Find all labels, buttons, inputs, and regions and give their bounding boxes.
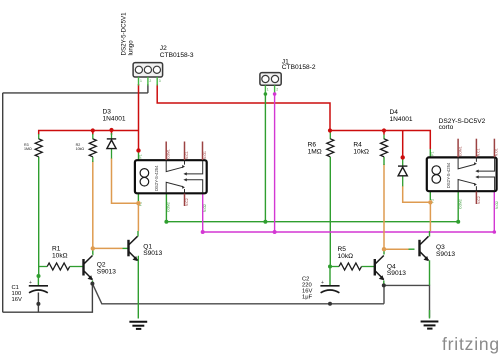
- svg-text:3: 3: [159, 79, 161, 83]
- wire: green R1 right lead to Q2 base: [70, 266, 83, 268]
- wire: orange R2 bottom drop: [92, 161, 94, 248]
- wire: red D4 anode drop: [402, 131, 404, 158]
- wire: green Q1 base stub: [123, 247, 129, 249]
- svg-text:S9013: S9013: [97, 268, 116, 275]
- svg-text:R6: R6: [308, 142, 317, 149]
- wire: ground run up to Q4 emitter: [383, 285, 385, 303]
- relay K1 switch 1: [166, 161, 203, 174]
- wire: black bottom run to Q2 emitter: [3, 284, 93, 313]
- ground (left): [129, 322, 147, 329]
- wire: green R6 top stub: [329, 133, 331, 140]
- relay K2 switch 2: [458, 177, 495, 191]
- wire: green R2 bottom stub: [92, 157, 94, 162]
- node: rail/R4: [382, 128, 386, 132]
- node: J1 pin2 start: [273, 92, 277, 96]
- relay K2 DS2Y-S body: [427, 157, 497, 191]
- svg-text:CTB0158-2: CTB0158-2: [282, 64, 316, 71]
- svg-text:1: 1: [140, 79, 142, 83]
- transistor Q2 S9013: [82, 256, 93, 281]
- transistor Q1 S9013: [127, 236, 138, 261]
- wire: green Q1 emitter to ground: [137, 257, 140, 319]
- svg-text:1N4001: 1N4001: [390, 116, 413, 123]
- resistor R5 10k (horizontal): [339, 263, 362, 270]
- svg-text:corto: corto: [439, 124, 454, 131]
- node: rail/R2: [91, 128, 95, 132]
- svg-text:N.C1: N.C1: [185, 151, 189, 159]
- svg-text:N.O1: N.O1: [203, 151, 207, 159]
- wire: green relay K1 coil+ pin stub: [138, 151, 140, 161]
- svg-text:fritzing: fritzing: [442, 334, 500, 354]
- node: Q2 emitter: [90, 282, 94, 286]
- capacitor C1 (polarized): [29, 280, 48, 293]
- relay K1 DS2Y-S body: [135, 160, 207, 193]
- node: Q4 emitter: [382, 283, 386, 287]
- wire: green R5 left lead: [330, 266, 339, 268]
- svg-text:S9013: S9013: [436, 251, 455, 258]
- relay K2 unconnected top pins: [458, 139, 494, 158]
- resistor R4 (10k): [381, 139, 388, 157]
- node: magenta bus right end: [493, 230, 497, 234]
- node: R4/Q3 base/Q4 collector: [382, 247, 386, 251]
- node: R5/C2: [328, 265, 332, 269]
- svg-text:DS2Y-S-4254: DS2Y-S-4254: [154, 165, 159, 191]
- wire: green Q4 emitter stub: [383, 281, 385, 286]
- svg-text:J2: J2: [160, 45, 167, 52]
- resistor R3 (1M): [35, 139, 42, 157]
- svg-text:CTB0158-3: CTB0158-3: [160, 52, 194, 59]
- svg-text:P1: P1: [431, 151, 435, 155]
- wire: green R1 left lead: [39, 266, 48, 268]
- capacitor C2 (polarized): [320, 280, 339, 293]
- resistor R6 (1M): [327, 139, 334, 157]
- svg-text:16V: 16V: [12, 297, 22, 303]
- wire: orange relay K2 coil- to Q3 collector: [429, 202, 431, 231]
- transistor Q3 S9013: [418, 236, 429, 261]
- svg-text:N.O1: N.O1: [495, 148, 499, 156]
- relay K2 switch 1: [458, 158, 495, 171]
- wire: green R3 top stub: [38, 134, 40, 139]
- svg-text:N.C2: N.C2: [185, 198, 189, 206]
- svg-text:COM1: COM1: [458, 146, 462, 156]
- svg-text:2: 2: [276, 88, 278, 92]
- wire: green relay K2 coil- pin stub: [429, 191, 431, 200]
- svg-text:1MΩ: 1MΩ: [308, 149, 322, 156]
- node: D3/K1 coil-/Q1 collector: [136, 201, 140, 205]
- svg-text:10kΩ: 10kΩ: [338, 253, 354, 260]
- wire: orange to Q3 base: [384, 248, 409, 250]
- wire: orange R4 bottom drop: [383, 164, 385, 249]
- svg-text:+: +: [321, 280, 324, 286]
- wire: green R6 bottom long drop to R5/C2: [329, 157, 331, 267]
- wire: green bus (relay commons / J1 pin1): [166, 191, 458, 221]
- resistor R2 (10k): [89, 139, 96, 157]
- wire: black down left edge: [2, 93, 4, 312]
- wire: red +V rail left: [39, 131, 139, 135]
- node: J1 pin1 start: [264, 92, 268, 96]
- wire: black horizontal to left edge: [3, 92, 148, 94]
- wire: green Q1 collector stub: [137, 231, 139, 237]
- relay K1 unconnected bottom pin: [184, 194, 186, 207]
- connector J1 CTB0158-2: [260, 73, 281, 93]
- wire: magenta bus (relay NO / J1 pin2): [203, 191, 495, 232]
- svg-text:COM1: COM1: [167, 149, 171, 159]
- svg-text:+: +: [29, 280, 32, 286]
- wire: green Q2 emitter stub: [91, 281, 93, 284]
- svg-text:COM2: COM2: [167, 202, 171, 212]
- wire: green Q3 emitter stub: [428, 261, 431, 285]
- svg-text:1μF: 1μF: [302, 294, 313, 300]
- relay K1 unconnected top pins: [166, 142, 202, 161]
- svg-text:R4: R4: [353, 142, 362, 149]
- connector J2 CTB0158-3: [133, 63, 163, 86]
- node: green bus right end: [456, 220, 460, 224]
- wire: C1 bottom to bottom run: [37, 293, 39, 313]
- node: green bus / J1 pin1: [263, 220, 267, 224]
- diode D3 1N4001: [107, 139, 116, 149]
- node: C2 bottom: [328, 302, 332, 306]
- svg-text:10kΩ: 10kΩ: [353, 149, 369, 156]
- wire: green relay K1 coil- pin stub: [137, 193, 139, 201]
- wire: green Q2 collector stub: [92, 248, 94, 254]
- wire: red D3 top stub: [111, 131, 113, 135]
- node: magenta bus left end: [201, 230, 205, 234]
- svg-text:DS2Y-5-DC5V1: DS2Y-5-DC5V1: [121, 12, 128, 56]
- svg-text:DS2Y-S-4254: DS2Y-S-4254: [446, 162, 451, 188]
- wire: Q4 emitter to right ground: [384, 285, 430, 317]
- svg-text:1MΩ: 1MΩ: [24, 147, 32, 151]
- svg-text:P1: P1: [139, 154, 143, 158]
- wire: magenta J1 pin2 drop: [274, 92, 276, 232]
- node: rail/D3: [109, 128, 113, 132]
- svg-text:N.O2: N.O2: [495, 201, 499, 209]
- wire: green Q3 collector stub: [429, 231, 431, 237]
- wire: orange D4 anode drop: [403, 186, 431, 202]
- wire: ground run from Q2 emitter diagonal: [92, 284, 384, 304]
- svg-text:1: 1: [267, 88, 269, 92]
- svg-text:N.C2: N.C2: [477, 196, 481, 204]
- svg-text:10kΩ: 10kΩ: [76, 147, 85, 151]
- wire: red R4 top stub: [383, 131, 385, 135]
- transistor Q4 S9013: [374, 256, 385, 281]
- svg-text:10kΩ: 10kΩ: [52, 252, 68, 259]
- wire: black net from J2 pin2 down: [147, 84, 149, 93]
- wire: green D3 anode stub: [111, 149, 113, 159]
- svg-text:D4: D4: [390, 109, 399, 116]
- wire: green D4 cathode stub: [402, 157, 404, 166]
- wire: red +V rail right: [330, 131, 430, 150]
- node: R2/Q1 base/Q2 collector: [91, 246, 95, 250]
- svg-text:COM2: COM2: [458, 199, 462, 209]
- relay K1 switch 2: [166, 180, 203, 193]
- relay K1 coil: [140, 169, 149, 178]
- svg-text:S9013: S9013: [143, 250, 162, 257]
- wire: orange to Q1 base: [93, 247, 123, 249]
- wire: orange D3 anode drop: [112, 158, 139, 203]
- wire: green J1 pin1 drop: [264, 92, 266, 222]
- wire: green C2 top stub: [329, 267, 331, 286]
- wire: red J2 pin1 down to relay K1 coil: [138, 84, 140, 151]
- node: D4/K2 coil-/Q3 collector: [428, 200, 432, 204]
- wire: green R4 lower stub: [383, 157, 385, 165]
- svg-text:N.O2: N.O2: [203, 204, 207, 212]
- diode D4 1N4001: [398, 166, 407, 176]
- wire: green relay K2 coil+ pin stub: [429, 149, 431, 158]
- wire: green R2 top stub: [92, 134, 94, 139]
- wire: green D4 anode stub: [402, 176, 404, 187]
- wire: green R3 bottom to R1 and C1: [37, 157, 39, 286]
- wire: green D3 cathode stub: [111, 133, 113, 139]
- node: K1 coil+: [136, 148, 140, 152]
- wire: red R2 top stub: [92, 131, 94, 135]
- relay K2 unconnected bottom pin: [475, 192, 477, 205]
- wire: green Q3 base stub: [409, 248, 415, 250]
- wire: green stub above right ground: [429, 310, 431, 319]
- svg-text:1N4001: 1N4001: [103, 116, 126, 123]
- svg-text:lungo: lungo: [128, 40, 135, 56]
- wire: green Q4 collector stub from junction: [383, 249, 385, 254]
- node: C1 bottom: [36, 302, 40, 306]
- svg-text:2: 2: [149, 79, 151, 83]
- resistor R1 10k (horizontal): [47, 263, 69, 270]
- node: rail/R6 corner: [328, 128, 332, 132]
- ground (right): [421, 322, 439, 329]
- svg-text:S9013: S9013: [387, 270, 406, 277]
- wire: red J2 pin3 down and across: [157, 84, 330, 131]
- node: magenta bus / J1 pin2: [273, 230, 277, 234]
- node: D4 anode top: [401, 155, 405, 159]
- svg-text:N.C1: N.C1: [477, 148, 481, 156]
- wire: orange relay K1 coil- to Q1 collector: [137, 203, 139, 231]
- node: green bus left end: [164, 220, 168, 224]
- relay K2 coil: [432, 166, 441, 175]
- wire: green R5 right lead to Q4 base: [362, 266, 375, 268]
- node: R1/C1: [37, 274, 41, 278]
- svg-text:D3: D3: [103, 109, 112, 116]
